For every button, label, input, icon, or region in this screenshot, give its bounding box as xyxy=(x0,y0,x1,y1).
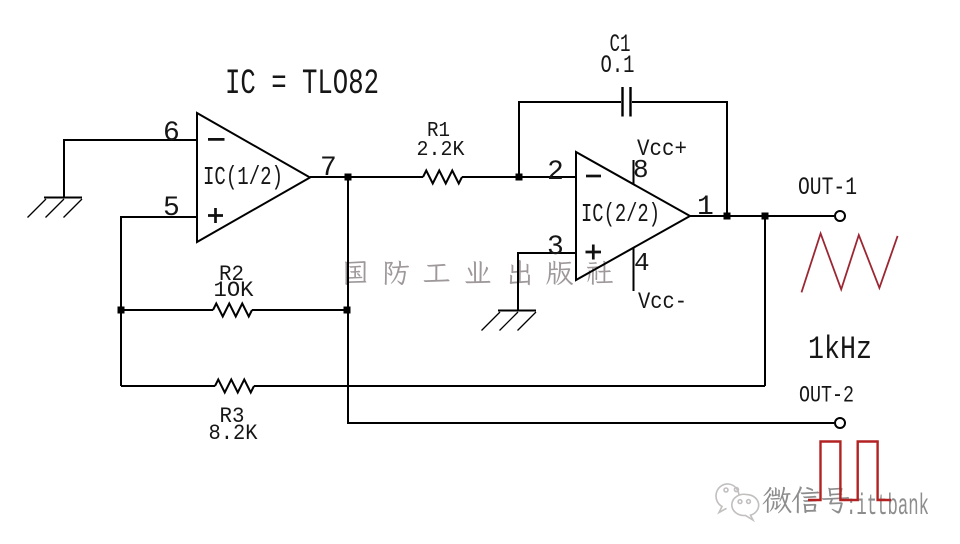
svg-text:IC(2/2): IC(2/2) xyxy=(581,199,660,229)
svg-text:OUT-1: OUT-1 xyxy=(798,173,857,202)
svg-text:8.2K: 8.2K xyxy=(209,421,259,446)
svg-text:1kHz: 1kHz xyxy=(808,331,872,368)
svg-text:5: 5 xyxy=(163,193,180,224)
svg-text:4: 4 xyxy=(634,248,650,278)
svg-text:3: 3 xyxy=(547,232,564,263)
svg-text:Vcc+: Vcc+ xyxy=(637,136,687,162)
svg-text:OUT-2: OUT-2 xyxy=(799,383,854,409)
svg-text:2.2K: 2.2K xyxy=(417,139,465,162)
svg-text:Vcc-: Vcc- xyxy=(638,289,687,315)
svg-text:1: 1 xyxy=(697,192,714,223)
svg-text:IC = TLO82: IC = TLO82 xyxy=(225,64,379,104)
svg-text:1OK: 1OK xyxy=(214,278,255,303)
svg-text:O.1: O.1 xyxy=(601,51,635,80)
svg-text:IC(1/2): IC(1/2) xyxy=(203,162,283,192)
svg-text:6: 6 xyxy=(163,118,180,149)
svg-text:7: 7 xyxy=(320,153,337,184)
svg-text:2: 2 xyxy=(547,157,564,188)
